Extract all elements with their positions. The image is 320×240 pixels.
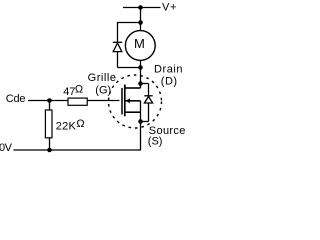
svg-text:22K: 22K bbox=[56, 120, 77, 132]
svg-text:(S): (S) bbox=[148, 136, 163, 148]
svg-text:Ω: Ω bbox=[75, 84, 83, 96]
svg-text:(D): (D) bbox=[161, 76, 178, 88]
svg-text:Cde: Cde bbox=[6, 93, 26, 105]
svg-text:Grille: Grille bbox=[88, 72, 117, 84]
svg-text:M: M bbox=[134, 36, 145, 51]
svg-text:47: 47 bbox=[63, 86, 75, 98]
svg-text:V+: V+ bbox=[162, 2, 177, 14]
svg-text:Ω: Ω bbox=[76, 118, 84, 130]
svg-text:(G): (G) bbox=[95, 85, 111, 97]
svg-text:Drain: Drain bbox=[154, 64, 183, 76]
svg-text:0V: 0V bbox=[0, 142, 13, 154]
